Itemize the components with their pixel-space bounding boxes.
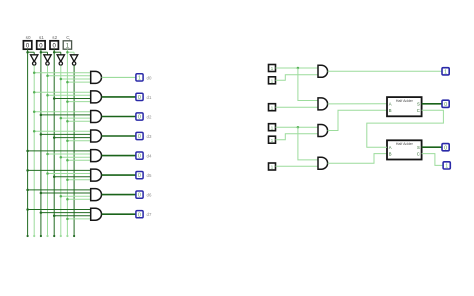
wire direct rail s1: [40, 49, 42, 236]
wire input 1 of gate U5: [28, 150, 91, 152]
junction rail2 row4: [33, 130, 36, 133]
half adder HA1: [387, 97, 422, 116]
junction I1 branch: [297, 67, 300, 70]
wire jog to inverter 2: [41, 51, 48, 53]
junction rail7 row8: [66, 218, 69, 221]
AND gate G1: [318, 65, 328, 77]
junction rail3 row3: [40, 114, 43, 117]
wire inverted rail s1: [47, 65, 49, 236]
svg-text:B: B: [389, 108, 392, 113]
wire input 3 of gate U3: [61, 117, 91, 119]
wire direct rail s2: [53, 49, 55, 236]
AND gate U6 (d5): [91, 169, 102, 181]
input pin I6: [269, 163, 276, 171]
svg-text:0: 0: [138, 173, 141, 179]
junction s2 jog: [53, 51, 56, 54]
wire input 3 of gate U2: [54, 98, 90, 100]
AND gate U8 (d7): [91, 208, 102, 220]
wire input 3 of gate U4: [54, 137, 90, 139]
wire input 2 of gate U1: [48, 75, 91, 77]
svg-text:d0: d0: [147, 75, 152, 80]
wire G2 output to HA1 A: [328, 103, 387, 105]
wire HA2 S to P2 pin: [422, 146, 442, 148]
junction rail7 row3: [66, 120, 69, 123]
wire I1 to gate G1 top: [276, 67, 319, 69]
wire end dots: [27, 235, 76, 237]
wire input 1 of gate U4: [34, 130, 90, 132]
wire output d7: [102, 213, 137, 215]
wire input 3 of gate U5: [61, 156, 91, 158]
wire input 4 of gate U2: [67, 101, 90, 103]
svg-text:d1: d1: [147, 95, 152, 100]
wire I3 to gate G2 bottom: [276, 106, 319, 108]
junction rail7 row5: [66, 159, 69, 162]
svg-text:0: 0: [138, 115, 141, 121]
wire input 4 of gate U5: [67, 159, 90, 161]
wire input 2 of gate U7: [41, 192, 91, 194]
svg-text:B: B: [389, 151, 392, 156]
junction rail4 row2: [46, 94, 49, 97]
output pin P2: [442, 144, 449, 152]
junction rail4 row5: [46, 153, 49, 156]
input pin s1: [37, 35, 45, 50]
svg-text:Half Adder: Half Adder: [396, 142, 414, 146]
junction rail4 row6: [46, 172, 49, 175]
svg-text:1: 1: [138, 76, 141, 82]
output pin d1: [136, 93, 143, 101]
wire input 1 of gate U2: [34, 91, 90, 93]
AND gate G2: [318, 98, 328, 110]
output pin d0: [136, 74, 143, 82]
wire inverted rail s2: [60, 65, 62, 236]
wire input 1 of gate U1: [34, 72, 90, 74]
AND gate U4 (d3): [91, 130, 102, 142]
svg-text:d5: d5: [147, 173, 152, 178]
junction rail1 row8: [26, 208, 29, 211]
inverter NOT2: [44, 52, 51, 65]
svg-text:1: 1: [271, 138, 274, 144]
AND gate U3 (d2): [91, 111, 102, 123]
wire I6 to gate G4 bottom: [276, 165, 319, 167]
AND gate G4: [318, 157, 328, 169]
svg-text:0: 0: [138, 95, 141, 101]
junction rail5 row6: [53, 175, 56, 178]
inverter NOT4: [70, 52, 77, 65]
svg-text:0: 0: [138, 154, 141, 160]
wire input 1 of gate U8: [28, 209, 91, 211]
wire branch to gate G4 top: [298, 127, 318, 160]
svg-text:0: 0: [138, 212, 141, 218]
input pin s0: [23, 35, 31, 50]
svg-text:0: 0: [138, 193, 141, 199]
svg-text:0: 0: [444, 102, 447, 108]
junction rail7 row2: [66, 100, 69, 103]
wire G3 output to HA1 B: [328, 110, 387, 130]
AND gate U5 (d4): [91, 150, 102, 162]
svg-text:d2: d2: [147, 114, 152, 119]
wire input 2 of gate U4: [41, 133, 91, 135]
output pin P0: [442, 68, 449, 76]
wire input 1 of gate U7: [28, 189, 91, 191]
wire input 3 of gate U8: [54, 215, 90, 217]
output pin d7: [136, 211, 143, 219]
AND gate U7 (d6): [91, 189, 102, 201]
wire output d0: [102, 76, 137, 78]
svg-text:d4: d4: [147, 154, 152, 159]
svg-text:d6: d6: [147, 193, 152, 198]
svg-text:A: A: [389, 145, 392, 150]
AND gate U2 (d1): [91, 91, 102, 103]
junction rail2 row1: [33, 71, 36, 74]
wire input 3 of gate U1: [61, 78, 91, 80]
junction rail2 row3: [33, 111, 36, 114]
output pin P3: [443, 162, 450, 170]
output pin d6: [136, 191, 143, 199]
junction rail3 row8: [40, 211, 43, 214]
wire input 4 of gate U3: [67, 120, 90, 122]
junction rail5 row8: [53, 215, 56, 218]
junction rail6 row3: [60, 117, 63, 120]
svg-text:0: 0: [138, 134, 141, 140]
output pin d5: [136, 172, 143, 180]
svg-text:1: 1: [271, 66, 274, 72]
svg-text:s0: s0: [26, 35, 31, 40]
wire inverted rail s0: [33, 65, 35, 236]
junction rail3 row7: [40, 192, 43, 195]
junction rail1 row6: [26, 169, 29, 172]
svg-text:Half Adder: Half Adder: [396, 99, 414, 103]
wire HA1 S to P1 pin: [422, 103, 442, 105]
input pin I1: [269, 65, 276, 73]
input pin I4: [269, 124, 276, 132]
wire HA1 C to HA2 A: [367, 110, 444, 147]
svg-text:d7: d7: [147, 212, 152, 217]
wire branch to gate G2 top: [298, 68, 318, 101]
input pin I2: [269, 77, 276, 85]
output pin d4: [136, 152, 143, 160]
junction rail1 row7: [26, 189, 29, 192]
wire jog to inverter 4: [67, 51, 74, 53]
svg-text:s2: s2: [52, 35, 57, 40]
wire input 4 of gate U8: [67, 218, 90, 220]
output pin d3: [136, 132, 143, 140]
svg-text:s1: s1: [39, 35, 44, 40]
junction rail6 row1: [60, 78, 63, 81]
junction C jog: [66, 51, 69, 54]
wire output d1: [102, 96, 137, 98]
junction rail2 row2: [33, 91, 36, 94]
svg-text:C: C: [417, 151, 420, 156]
wire input 4 of gate U6: [67, 179, 90, 181]
wire output d4: [102, 155, 137, 157]
wire jog to inverter 1: [28, 51, 35, 53]
junction rail7 row7: [66, 198, 69, 201]
wire input 4 of gate U1: [67, 81, 90, 83]
wire I5 jog to gate G3 bottom: [276, 134, 319, 140]
junction rail5 row2: [53, 97, 56, 100]
svg-text:S: S: [417, 145, 420, 150]
wire input 2 of gate U8: [41, 212, 91, 214]
svg-text:C: C: [417, 108, 420, 113]
wire inverted rail C: [73, 65, 75, 236]
output pin d2: [136, 113, 143, 121]
wire input 2 of gate U2: [48, 94, 91, 96]
wire input 2 of gate U6: [48, 173, 91, 175]
junction rail7 row4: [66, 139, 69, 142]
junction rail3 row4: [40, 133, 43, 136]
wire output d6: [102, 194, 137, 196]
svg-text:1: 1: [271, 79, 274, 85]
wire output d2: [102, 116, 137, 118]
svg-text:1: 1: [271, 105, 274, 111]
wire input 3 of gate U6: [54, 176, 90, 178]
inverter NOT1: [31, 52, 38, 65]
svg-text:1: 1: [271, 125, 274, 131]
wire input 4 of gate U4: [67, 140, 90, 142]
wire jog to inverter 3: [54, 51, 61, 53]
svg-text:1: 1: [271, 165, 274, 171]
output pin P1: [442, 100, 449, 108]
wire input 3 of gate U7: [61, 195, 91, 197]
junction rail1 row5: [26, 150, 29, 153]
svg-text:0: 0: [444, 145, 447, 151]
wire input 1 of gate U3: [34, 111, 90, 113]
input pin C: [63, 35, 71, 50]
junction I4 branch: [297, 126, 300, 129]
AND gate U1 (d0): [91, 71, 102, 83]
wire input 4 of gate U7: [67, 198, 90, 200]
wire I4 to gate G3 top: [276, 126, 319, 128]
wire input 1 of gate U6: [28, 169, 91, 171]
junction s1 jog: [40, 51, 43, 54]
svg-text:S: S: [417, 102, 420, 107]
svg-text:1: 1: [444, 70, 447, 76]
wire input 2 of gate U3: [41, 114, 91, 116]
junction rail7 row6: [66, 179, 69, 182]
svg-text:1: 1: [445, 164, 448, 170]
half adder HA2: [387, 140, 422, 159]
wire output d5: [102, 174, 137, 176]
wire HA2 C to P3 pin: [422, 154, 444, 166]
svg-text:A: A: [389, 102, 392, 107]
AND gate G3: [318, 125, 328, 137]
wire G1 output to P0 pin: [328, 70, 442, 72]
wire I2 jog to gate G1 bottom: [276, 75, 319, 81]
inverter NOT3: [57, 52, 64, 65]
junction rail5 row4: [53, 136, 56, 139]
junction rail6 row5: [60, 156, 63, 159]
wire direct rail s0: [27, 49, 29, 236]
junction rail7 row1: [66, 81, 69, 84]
junction rail4 row1: [46, 75, 49, 78]
svg-text:d3: d3: [147, 134, 152, 139]
input pin I5: [269, 136, 276, 144]
wire input 2 of gate U5: [48, 153, 91, 155]
input pin I3: [269, 104, 276, 112]
junction s0 jog: [26, 51, 29, 54]
junction rail6 row7: [60, 195, 63, 198]
wire direct rail C: [66, 49, 68, 236]
input pin s2: [50, 35, 58, 50]
wire output d3: [102, 135, 137, 137]
wire G4 output to HA2 B: [328, 154, 387, 164]
